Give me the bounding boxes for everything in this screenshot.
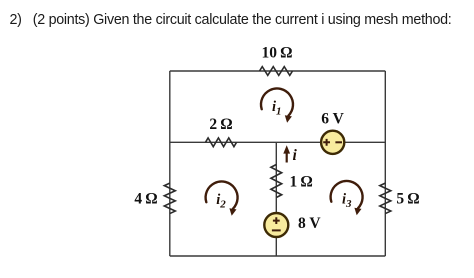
svg-text:1 Ω: 1 Ω: [290, 174, 313, 191]
svg-text:i: i: [293, 147, 298, 164]
voltage source 8V: [264, 213, 288, 237]
voltage source 6V: [321, 131, 344, 154]
mesh current i3: [331, 181, 363, 215]
svg-text:i2: i2: [216, 192, 226, 211]
svg-text:5 Ω: 5 Ω: [396, 191, 419, 208]
resistor 1 ohm: [271, 165, 282, 198]
resistor 4 ohm: [164, 183, 175, 213]
svg-text:i1: i1: [272, 99, 282, 118]
wire: top: [170, 70, 385, 72]
resistor 10 ohm: [260, 67, 293, 76]
svg-text:8 V: 8 V: [298, 215, 321, 232]
wire: left: [169, 71, 171, 256]
wire: bottom: [170, 255, 385, 257]
svg-text:2 Ω: 2 Ω: [209, 116, 232, 133]
wire: middle vertical: [275, 142, 277, 256]
wire: right: [384, 71, 386, 256]
current arrow i: [283, 145, 290, 162]
svg-text:10 Ω: 10 Ω: [261, 45, 292, 62]
svg-text:6 V: 6 V: [321, 111, 344, 128]
svg-text:4 Ω: 4 Ω: [134, 191, 157, 208]
wire: middle horizontal: [170, 141, 385, 143]
title text: [10, 12, 452, 28]
mesh current i1: [261, 88, 293, 122]
resistor 5 ohm: [380, 183, 391, 213]
mesh current i2: [206, 181, 238, 215]
resistor 2 ohm: [206, 138, 237, 147]
svg-text:i3: i3: [342, 192, 352, 211]
